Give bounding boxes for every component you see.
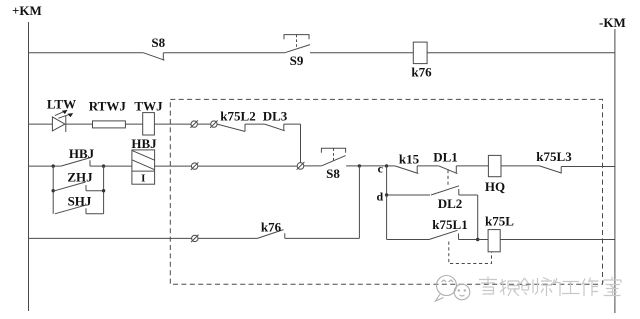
resistor RTWJ bbox=[89, 99, 127, 128]
svg-text:-KM: -KM bbox=[599, 15, 626, 30]
wire terminal3 to terminal4 bbox=[198, 165, 297, 167]
svg-text:RTWJ: RTWJ bbox=[89, 99, 127, 114]
contact SHJ bbox=[55, 194, 104, 214]
wire k75L to -KM bbox=[500, 239, 615, 241]
mech link DL1-DL2 bbox=[447, 170, 449, 185]
junction dot bbox=[102, 189, 105, 192]
svg-text:+KM: +KM bbox=[12, 3, 42, 18]
terminal circle 2 bbox=[210, 120, 218, 128]
svg-text:S9: S9 bbox=[290, 53, 304, 68]
wire d row bbox=[387, 194, 430, 196]
wire RTWJ to TWJ bbox=[125, 123, 142, 125]
wire S8 dot to node c bbox=[359, 165, 386, 167]
svg-text:d: d bbox=[376, 189, 383, 203]
wire d down to k75L1 row bbox=[386, 195, 388, 240]
contact DL3 bbox=[263, 109, 301, 131]
wire row2 from +KM bbox=[29, 123, 53, 125]
wire right -KM rail bbox=[614, 29, 616, 313]
wire top bus to -KM bbox=[427, 52, 615, 54]
svg-text:DL3: DL3 bbox=[263, 109, 288, 124]
svg-text:k75L1: k75L1 bbox=[432, 217, 467, 232]
contact k76 bbox=[257, 220, 359, 239]
wire parallel-group right bus bbox=[103, 166, 105, 214]
contact HBJ bbox=[61, 146, 104, 166]
pushbutton S9 bbox=[284, 35, 310, 68]
junction dot bbox=[52, 164, 55, 167]
wire HBJ box into dashed enclosure bbox=[155, 165, 192, 167]
pushbutton S8 (middle) bbox=[304, 148, 360, 181]
wire DL2 down to k75L row bbox=[477, 195, 479, 240]
svg-text:k75L: k75L bbox=[485, 213, 514, 228]
contact k75L3 bbox=[536, 149, 615, 174]
svg-text:DL2: DL2 bbox=[438, 196, 463, 211]
svg-text:TWJ: TWJ bbox=[134, 99, 163, 114]
svg-text:c: c bbox=[378, 162, 384, 176]
LED LTW bbox=[47, 97, 76, 133]
coil HQ bbox=[485, 155, 505, 194]
terminal circle 4 bbox=[297, 162, 305, 170]
junction dot k75L bbox=[476, 238, 479, 241]
svg-text:k75L2: k75L2 bbox=[220, 109, 255, 124]
wire top bus right segment bbox=[310, 52, 413, 54]
wire c down to d bbox=[386, 166, 388, 195]
svg-text:I: I bbox=[141, 173, 145, 185]
svg-text:k76: k76 bbox=[261, 220, 282, 235]
watermark logo bbox=[436, 276, 470, 302]
mech link k75L1 to coil bbox=[449, 242, 492, 264]
wire S8 dot down to k76 row bbox=[358, 166, 360, 239]
terminal circle 5 bbox=[191, 235, 199, 243]
wire mid row from +KM bbox=[29, 165, 61, 167]
wire HBJ group to relay box bbox=[104, 165, 132, 167]
wire between terminals bbox=[197, 123, 210, 125]
wire terminal5 to k76 contact bbox=[198, 237, 257, 239]
switch S8 (top) bbox=[144, 35, 166, 61]
contact DL1 bbox=[433, 149, 488, 173]
wire top bus left segment bbox=[29, 52, 144, 54]
terminal circle 3 bbox=[191, 162, 199, 170]
svg-text:ZHJ: ZHJ bbox=[67, 170, 93, 185]
junction dot bbox=[52, 189, 55, 192]
wire DL3 down to terminal bbox=[300, 124, 302, 163]
svg-text:HQ: HQ bbox=[485, 179, 505, 194]
svg-text:HBJ: HBJ bbox=[69, 146, 95, 161]
contact DL2 bbox=[431, 186, 478, 211]
dashed enclosure bbox=[170, 99, 602, 284]
node d bbox=[376, 189, 388, 203]
wire parallel-group left bus bbox=[52, 166, 54, 214]
relay TWJ bbox=[134, 99, 163, 136]
svg-text:S8: S8 bbox=[326, 166, 340, 181]
junction dot S8 output bbox=[358, 164, 361, 167]
wire k75L1 row left bbox=[387, 239, 429, 241]
wire top bus middle segment bbox=[163, 52, 284, 54]
wire to coil k75L bbox=[478, 239, 488, 241]
node c bbox=[378, 162, 389, 176]
contact k75L1 bbox=[429, 217, 478, 240]
junction dot bbox=[102, 164, 105, 167]
coil k75L bbox=[485, 213, 514, 252]
contact k75L2 bbox=[217, 109, 265, 132]
svg-text:k76: k76 bbox=[411, 65, 432, 80]
svg-text:DL1: DL1 bbox=[433, 149, 458, 164]
svg-text:k15: k15 bbox=[399, 152, 420, 167]
wire HQ to k75L3 bbox=[501, 165, 540, 167]
relay coil k76 bbox=[411, 42, 432, 79]
svg-text:LTW: LTW bbox=[47, 97, 76, 112]
wire TWJ into dashed box bbox=[154, 123, 191, 125]
terminal circle 1 bbox=[190, 120, 198, 128]
svg-text:HBJ: HBJ bbox=[131, 136, 157, 151]
wire left +KM rail bbox=[28, 22, 30, 311]
contact ZHJ bbox=[55, 170, 104, 191]
contact k15 bbox=[387, 152, 439, 174]
svg-text:S8: S8 bbox=[151, 35, 165, 50]
svg-text:SHJ: SHJ bbox=[68, 194, 92, 209]
svg-text:k75L3: k75L3 bbox=[536, 149, 572, 164]
watermark text 雪狼创新工作室 bbox=[479, 277, 621, 297]
wire LTW to RTWJ bbox=[66, 123, 93, 125]
relay HBJ (box with I) bbox=[131, 136, 157, 185]
wire k76 row from +KM bbox=[29, 237, 192, 239]
